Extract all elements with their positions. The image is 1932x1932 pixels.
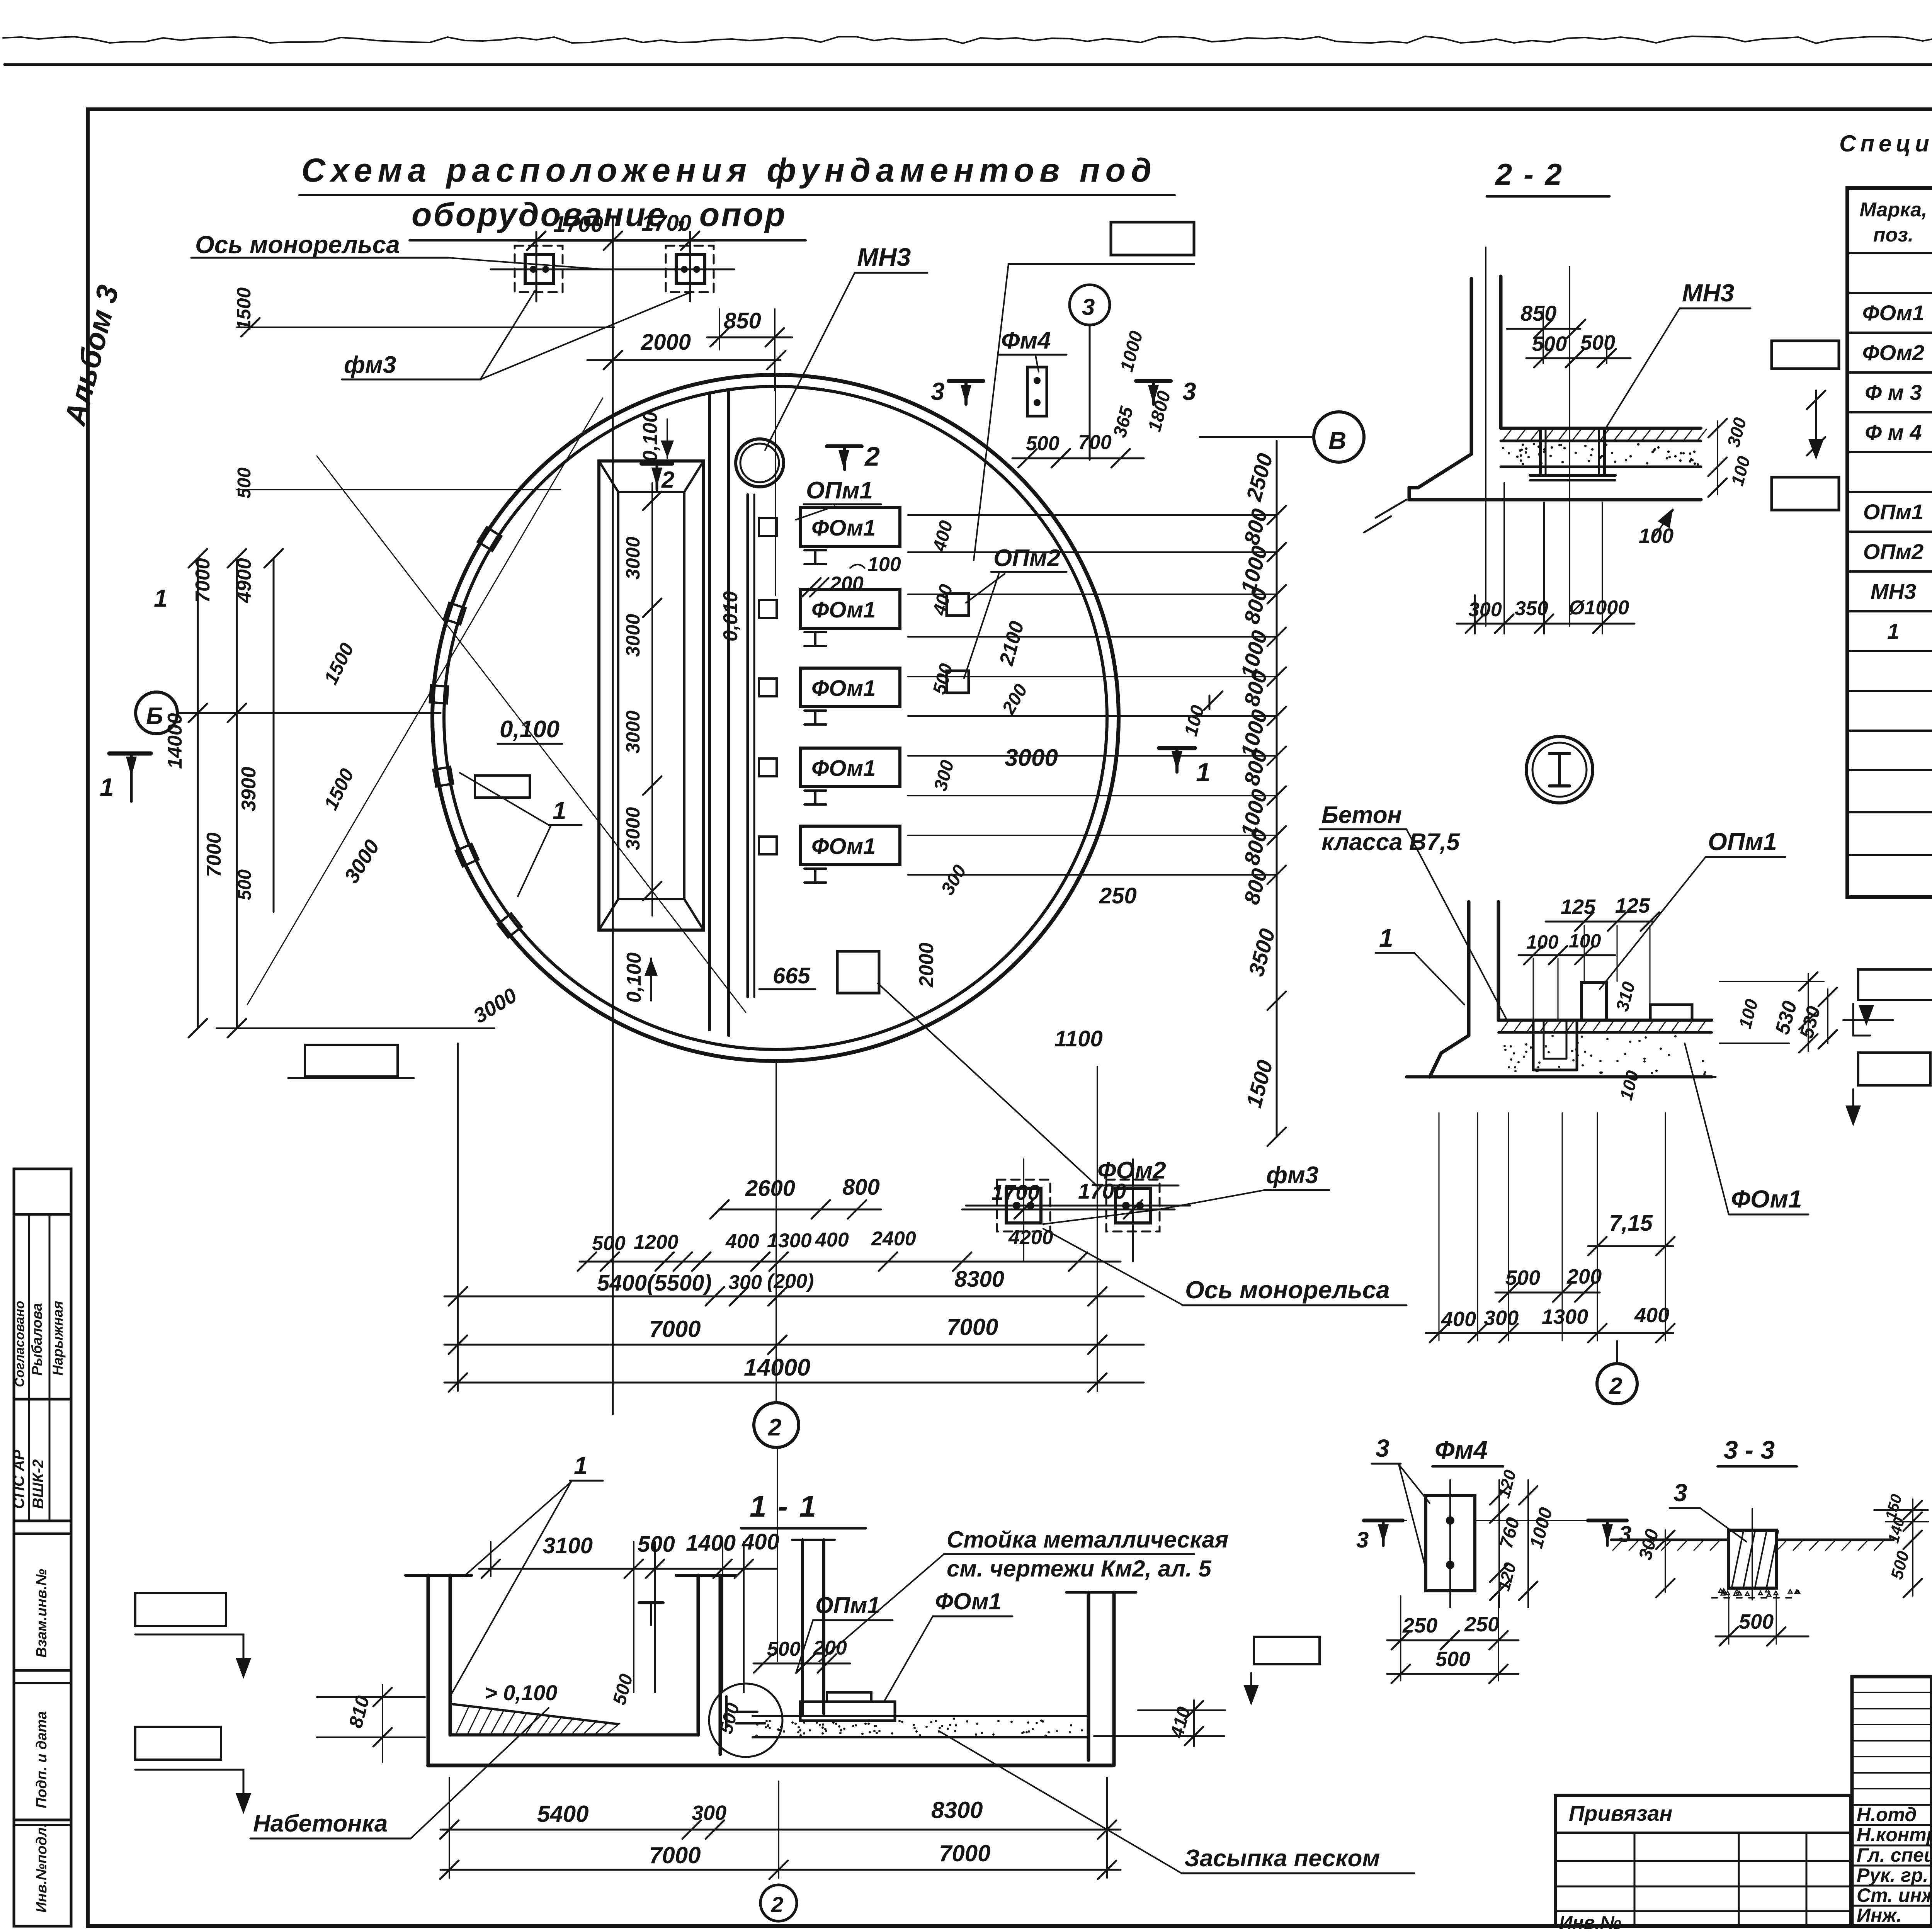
svg-text:1 - 1: 1 - 1 [750,1489,818,1523]
svg-text:1: 1 [100,773,114,801]
legend rect in plan [475,776,530,798]
svg-text:100: 100 [1616,1068,1643,1102]
svg-text:400: 400 [929,518,957,554]
axis 2 extension [777,1448,778,1662]
sheet edge line top [5,63,1932,66]
svg-text:Инж.: Инж. [1857,1905,1902,1926]
svg-text:1200: 1200 [634,1231,679,1253]
legend rect left low [305,1045,398,1077]
rail line [747,495,749,997]
3-3 ground line [1611,1539,1729,1541]
svg-text:100: 100 [1526,931,1559,953]
detail I wall [1467,902,1471,1036]
dim chain 2 line [580,1261,1121,1263]
svg-text:0,100: 0,100 [623,952,645,1003]
svg-text:400: 400 [1634,1304,1669,1327]
svg-text:Стойка металлическая: Стойка металлическая [947,1527,1228,1553]
svg-text:Ø1000: Ø1000 [1569,597,1629,619]
svg-text:300: 300 [1468,599,1502,621]
svg-text:ФОм2: ФОм2 [1097,1157,1166,1184]
chain baseline left [216,1027,495,1029]
svg-text:1300: 1300 [1542,1305,1588,1328]
svg-text:8300: 8300 [931,1797,983,1823]
svg-text:3: 3 [1376,1434,1389,1462]
I symbol [1549,752,1570,755]
3-3 block [1729,1530,1776,1588]
svg-text:200: 200 [830,573,864,595]
svg-text:300: 300 [692,1801,726,1825]
svg-text:1: 1 [553,797,566,825]
3-3 sand dots [1712,1597,1797,1599]
svg-text:1500: 1500 [1242,1057,1277,1110]
svg-text:Н.контр.: Н.контр. [1857,1824,1932,1845]
svg-text:4900: 4900 [233,558,255,603]
title block attach table Привязан [1556,1795,1851,1926]
left dim line 1 [197,558,199,1028]
svg-text:2: 2 [1609,1373,1622,1399]
svg-text:500: 500 [1505,1266,1540,1289]
svg-text:Нарыжная: Нарыжная [50,1301,66,1376]
svg-text:100: 100 [1727,454,1754,488]
svg-text:1300: 1300 [767,1230,812,1252]
svg-text:500: 500 [1887,1549,1913,1581]
svg-text:3000: 3000 [1005,745,1058,771]
ФОм1 foundation 2 [800,590,900,628]
svg-text:365: 365 [1109,404,1137,440]
svg-text:Набетонка: Набетонка [253,1810,388,1837]
floor grid line [908,715,1277,717]
svg-text:Инв.№подл.: Инв.№подл. [34,1823,50,1913]
floor grid line [908,835,1277,836]
legend rect 1-1 right [1254,1637,1320,1664]
svg-text:Фм4: Фм4 [1001,327,1051,354]
svg-text:ФОм2: ФОм2 [1862,340,1925,365]
svg-text:Бетон: Бетон [1321,802,1402,828]
svg-text:3900: 3900 [238,767,260,811]
svg-text:Согласовано: Согласовано [12,1301,27,1387]
ФОм1 foundation 3 [800,668,900,707]
svg-text:125: 125 [1615,894,1650,917]
svg-text:700: 700 [1078,431,1112,454]
svg-text:ФОм1: ФОм1 [811,515,876,541]
svg-text:4200: 4200 [1008,1226,1053,1249]
svg-text:Рук. гр.: Рук. гр. [1857,1864,1928,1886]
svg-text:200: 200 [998,680,1032,718]
ОПм1 pad 4 [759,759,777,776]
detail I ФОм1 block [1650,1005,1692,1020]
1-1 floor slope hatch [452,1704,618,1724]
svg-text:ОПм2: ОПм2 [1863,539,1923,564]
legend rect bottom-left a [135,1593,226,1626]
svg-text:1000: 1000 [1526,1505,1556,1551]
svg-text:1000: 1000 [1116,329,1147,374]
svg-text:3: 3 [1619,1522,1631,1547]
svg-text:250: 250 [1464,1613,1499,1636]
svg-text:3500: 3500 [1244,926,1280,979]
svg-text:7000: 7000 [192,558,214,603]
ОПм2 square 2 [947,671,969,693]
svg-text:Фм4: Фм4 [1435,1435,1488,1464]
svg-text:Засыпка песком: Засыпка песком [1184,1845,1380,1872]
svg-text:Альбом 3: Альбом 3 [58,282,125,429]
ОПм1 pad 1 [759,518,777,536]
svg-text:500: 500 [609,1672,637,1707]
svg-text:ФОм1: ФОм1 [811,597,876,622]
diag leader b [247,398,603,1005]
svg-text:14000: 14000 [744,1354,810,1381]
svg-text:500: 500 [234,468,255,498]
svg-text:фм3: фм3 [1266,1162,1318,1189]
svg-text:ОПм1: ОПм1 [1708,828,1777,855]
bottom anchor square 2 [1116,1188,1150,1223]
svg-text:3: 3 [1356,1527,1369,1553]
svg-text:350: 350 [1515,597,1548,620]
note legend rect b [1858,1053,1930,1085]
pit centerline [651,483,653,916]
svg-text:500: 500 [592,1232,626,1255]
svg-text:500: 500 [1026,432,1060,455]
svg-text:Н.отд: Н.отд [1857,1804,1917,1825]
svg-text:300: 300 [937,861,971,898]
svg-text:Схема расположения фундамент: Схема расположения фундаментов под [301,152,1157,189]
svg-text:МН3: МН3 [1682,279,1734,307]
svg-text:665: 665 [773,963,811,988]
ОПм1 pad 5 [759,837,777,854]
svg-text:ОПм1: ОПм1 [1863,500,1923,524]
svg-text:2: 2 [661,467,674,493]
detail I ОПм1 post [1582,983,1607,1020]
svg-text:1: 1 [1196,758,1211,787]
svg-text:СПС АР: СПС АР [10,1449,27,1509]
1-1 tank walls [427,1575,430,1765]
svg-text:2100: 2100 [995,619,1028,668]
svg-text:100: 100 [1569,930,1601,952]
ФОм2 square [837,951,879,993]
plan inner wall circle [444,386,1107,1049]
axis circle 2 plan [754,1403,799,1447]
svg-text:400: 400 [742,1529,779,1554]
1-1 sand strip [753,1715,1089,1717]
svg-text:1800: 1800 [1144,389,1175,434]
svg-text:200: 200 [813,1637,847,1659]
svg-text:5400(5500): 5400(5500) [597,1270,712,1296]
legend rect 2-2 a [1772,341,1839,369]
МН3 pit circle [736,439,784,487]
section 2-2 wall [1470,279,1473,454]
svg-text:1: 1 [154,584,168,612]
svg-text:14000: 14000 [164,713,186,769]
legend rect bottom-left b [135,1727,221,1760]
svg-text:3000: 3000 [622,614,644,657]
svg-text:5400: 5400 [537,1801,588,1827]
svg-text:3: 3 [931,378,945,405]
detail I floor [1498,1019,1712,1022]
svg-text:200: 200 [1566,1265,1602,1288]
left dim line 2 [236,558,238,1028]
svg-text:2400: 2400 [871,1228,916,1250]
svg-text:1: 1 [1887,619,1899,643]
title block signature table [1852,1677,1932,1926]
right dim chain vertical [1276,441,1278,1137]
svg-text:1: 1 [1379,923,1393,952]
svg-text:7000: 7000 [649,1842,701,1868]
1-1 ОПм1 post [801,1540,804,1714]
svg-text:Привязан: Привязан [1569,1801,1672,1825]
svg-text:1700: 1700 [553,212,603,237]
svg-text:Ст. инж.: Ст. инж. [1857,1884,1932,1906]
svg-text:8300: 8300 [954,1267,1004,1292]
svg-text:3100: 3100 [543,1533,593,1558]
floor grid line [908,874,1277,876]
svg-text:3000: 3000 [622,807,644,850]
monorail vertical axis [612,216,614,1414]
axis Б line [177,712,440,714]
ОПм1 pad 2 [759,600,777,618]
svg-text:Ф м 4: Ф м 4 [1865,420,1922,444]
svg-text:800: 800 [1239,506,1272,548]
svg-text:Ось монорельса: Ось монорельса [195,231,400,259]
floor grid line [908,755,1277,757]
МН3 leader [765,273,855,450]
svg-text:300: 300 [1635,1527,1663,1562]
plan outer wall circle [432,375,1119,1061]
ОПм2 square 1 [947,594,969,616]
svg-text:0,010: 0,010 [719,591,742,641]
svg-text:500: 500 [1435,1648,1470,1671]
svg-text:ФОм1: ФОм1 [811,756,876,781]
svg-text:500: 500 [235,869,255,900]
svg-text:810: 810 [345,1694,374,1730]
section 2-2 floor hatch [1501,427,1701,430]
svg-text:> 0,100: > 0,100 [485,1680,557,1705]
svg-text:3: 3 [1182,378,1196,405]
svg-text:ФОм1: ФОм1 [811,834,876,859]
svg-text:2600: 2600 [745,1176,795,1201]
svg-text:Инв.№: Инв.№ [1559,1913,1621,1932]
svg-text:(200): (200) [767,1270,814,1293]
svg-text:2: 2 [771,1892,783,1917]
svg-text:2 - 2: 2 - 2 [1495,157,1563,191]
left dim line 3 [273,558,275,912]
dim chain 3 line [444,1296,1144,1298]
svg-text:800: 800 [842,1175,880,1200]
svg-text:100: 100 [1639,524,1673,548]
top chain h-line [237,327,614,328]
legend rect top right [1111,222,1194,255]
svg-text:3000: 3000 [469,984,521,1028]
1-1 right wall [1087,1592,1090,1760]
2-2 wall centerline [1485,247,1486,626]
svg-text:800: 800 [1239,866,1272,907]
svg-text:250: 250 [1099,883,1137,908]
svg-text:500: 500 [1739,1610,1774,1633]
svg-text:400: 400 [725,1230,759,1253]
svg-text:7000: 7000 [939,1840,990,1866]
1-1 ФОм1 block [800,1702,895,1721]
svg-text:поз.: поз. [1873,224,1914,246]
section flag 1 right [1159,746,1195,750]
floor grid line [908,551,1277,553]
svg-text:3000: 3000 [622,711,644,753]
svg-text:1400: 1400 [686,1531,736,1556]
svg-text:3: 3 [1673,1479,1687,1507]
svg-text:400: 400 [1441,1308,1476,1331]
svg-text:Гл. спец .: Гл. спец . [1857,1844,1932,1866]
svg-text:2: 2 [768,1414,781,1441]
svg-text:2500: 2500 [1241,451,1277,504]
section 2-2 footing [1409,488,1701,500]
svg-text:Спецификация к схеме расп: Спецификация к схеме расположения фундам… [1839,131,1932,156]
svg-text:ФОм1: ФОм1 [1731,1185,1802,1213]
svg-text:см. чертежи Км2, ал. 5: см. чертежи Км2, ал. 5 [947,1556,1212,1582]
Фм4 anchor plate [1027,367,1047,416]
svg-text:1500: 1500 [320,639,358,688]
svg-text:класса В7,5: класса В7,5 [1321,829,1460,855]
svg-text:3000: 3000 [622,537,644,580]
section 3 line top [1009,263,1194,265]
ФОм1 foundation 1 [800,508,900,546]
ФОм1 foundation 4 [800,748,900,787]
monorail anchor top 2 [676,255,705,283]
1-1 mid pit detail circle [709,1684,782,1757]
center axis to 2 [776,1063,777,1403]
svg-text:400: 400 [815,1229,849,1251]
svg-text:Ось монорельса: Ось монорельса [1185,1276,1390,1304]
svg-text:1700: 1700 [641,211,691,236]
ОПм1 pad 3 [759,679,777,696]
svg-text:3: 3 [1082,294,1095,320]
1-1 datum symbol [639,1601,663,1604]
svg-text:Рыбалова: Рыбалова [29,1303,45,1376]
svg-text:ОПм2: ОПм2 [993,545,1060,571]
2-2 centerline [1569,267,1570,626]
anchor axis [491,269,734,270]
svg-text:В: В [1328,427,1346,454]
axis circle Б [136,692,177,734]
svg-text:3000: 3000 [340,836,384,888]
svg-text:ВШК-2: ВШК-2 [30,1459,47,1509]
svg-text:500: 500 [929,661,957,696]
note legend rect a [1858,969,1932,1000]
svg-text:300: 300 [930,758,958,793]
axis circle 2 detail [1597,1364,1637,1404]
section 2-2 dotted layer [1501,466,1701,468]
svg-text:400: 400 [929,582,957,617]
floor grid line [908,676,1277,677]
torn paper edge top [3,36,1932,43]
svg-text:0,100: 0,100 [500,716,560,743]
svg-text:1100: 1100 [1054,1026,1103,1051]
diag leader a [317,456,746,1012]
flag 3 right [1588,1519,1627,1522]
left margin stamp column [14,1169,71,1926]
svg-text:1: 1 [574,1452,588,1480]
svg-text:300: 300 [1484,1306,1519,1330]
svg-text:850: 850 [724,308,761,333]
flag 3 left [1364,1519,1403,1522]
svg-text:300: 300 [1723,415,1750,449]
monorail anchor top 1 [525,255,554,283]
left pit [599,461,704,930]
floor grid line [908,594,1277,595]
detail Фм4 plate [1426,1495,1475,1591]
svg-text:МН3: МН3 [1871,579,1916,604]
svg-text:3 - 3: 3 - 3 [1724,1435,1775,1464]
svg-text:2: 2 [864,441,880,471]
svg-text:100: 100 [1735,997,1762,1031]
detail I pit [1532,1020,1535,1070]
svg-text:ФОм1: ФОм1 [935,1588,1002,1614]
svg-text:2000: 2000 [641,330,691,355]
axis circle 3 [1070,285,1110,325]
svg-text:500: 500 [767,1638,801,1660]
svg-text:100: 100 [867,553,901,576]
svg-text:2000: 2000 [915,942,938,988]
svg-text:фм3: фм3 [344,352,396,378]
svg-text:ОПм1: ОПм1 [806,477,873,504]
svg-text:ФОм1: ФОм1 [811,676,876,701]
svg-text:Б: Б [146,703,163,730]
svg-text:Подп. и дата: Подп. и дата [34,1711,50,1808]
axis circle 2 section [760,1885,797,1921]
floor grid line [908,636,1277,638]
flag 2 left [641,462,672,466]
svg-text:1500: 1500 [233,287,255,330]
spec table grid [1847,188,1932,897]
floor grid line [908,795,1277,796]
svg-text:МН3: МН3 [857,243,911,271]
svg-text:500: 500 [1580,331,1615,354]
svg-text:7000: 7000 [649,1316,701,1342]
svg-text:1500: 1500 [320,765,358,813]
svg-text:7000: 7000 [203,832,225,877]
bottom anchor square 1 [1006,1188,1041,1223]
central wall [708,393,711,1030]
svg-text:Ф м 3: Ф м 3 [1865,380,1922,405]
ФОм1 foundation 5 [800,826,900,865]
svg-text:500: 500 [638,1532,675,1557]
svg-text:Марка,: Марка, [1860,199,1927,221]
svg-text:310: 310 [1612,980,1639,1014]
svg-text:7,15: 7,15 [1609,1211,1653,1236]
floor grid line [908,514,1277,516]
svg-text:Взам.инв.№: Взам.инв.№ [34,1569,50,1658]
section 2-2 МН3 pit [1539,428,1542,475]
legend rect 2-2 b [1772,477,1839,510]
detail I circle [1526,736,1593,803]
section flag 1 left [109,752,151,756]
axis circle В [1314,412,1364,462]
svg-text:ФОм1: ФОм1 [1862,301,1925,325]
svg-text:0,100: 0,100 [639,412,662,462]
svg-text:7000: 7000 [947,1314,998,1340]
